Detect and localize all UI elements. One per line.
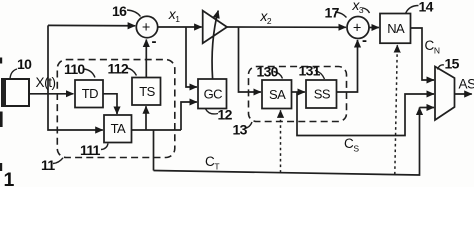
svg-text:110: 110 <box>64 61 85 77</box>
leader 15 <box>438 65 445 70</box>
svg-text:1: 1 <box>4 169 15 187</box>
block TA 111 <box>104 115 132 143</box>
scan edge artifacts <box>0 58 2 64</box>
svg-text:-: - <box>362 32 367 49</box>
svg-text:CS: CS <box>344 136 359 154</box>
block SA 130 <box>262 80 292 109</box>
wire CN from NA to selector <box>411 28 435 80</box>
svg-text:X(t): X(t) <box>36 75 56 90</box>
block NA 14 <box>380 14 411 44</box>
svg-text:SA: SA <box>269 87 286 102</box>
svg-text:17: 17 <box>325 5 340 21</box>
wire TD to TA <box>103 94 117 114</box>
svg-text:TA: TA <box>111 121 126 136</box>
leader 16 <box>127 10 141 17</box>
svg-text:AS: AS <box>459 77 474 92</box>
leader 13 <box>245 122 253 129</box>
dashed box 13 <box>249 67 347 122</box>
svg-text:130: 130 <box>257 64 279 80</box>
svg-text:CN: CN <box>425 38 440 56</box>
wire X(t) down branch to TA <box>48 94 103 130</box>
leader 14 <box>406 6 419 14</box>
wire X(t) from box 10 to TD <box>29 93 73 95</box>
svg-text:112: 112 <box>108 61 129 77</box>
svg-text:-: - <box>152 33 157 50</box>
summer 16 <box>136 16 157 37</box>
svg-text:+: + <box>142 20 150 36</box>
wire x2 to summer 17 <box>227 26 346 28</box>
amplifier (variable gain) <box>203 11 227 44</box>
svg-text:131: 131 <box>299 63 321 79</box>
wire TS to summer 16 minus input <box>145 40 147 78</box>
wire TA line down to CT <box>153 130 155 171</box>
wire CT to selector input <box>420 107 435 109</box>
wire CS tap down <box>297 92 434 136</box>
svg-text:x3: x3 <box>351 0 364 15</box>
leader 112 <box>127 68 137 76</box>
svg-text:GC: GC <box>204 86 223 101</box>
svg-text:NA: NA <box>387 21 405 36</box>
leader 110 <box>84 69 95 78</box>
svg-text:TS: TS <box>139 84 155 99</box>
svg-text:14: 14 <box>419 0 434 15</box>
block SS 131 <box>306 80 337 108</box>
node X(t) branch vertical <box>47 25 49 93</box>
block GC 12 <box>198 79 227 109</box>
leader 131 <box>315 71 325 80</box>
wire TA to TS <box>145 106 147 130</box>
leader x3 <box>363 8 370 13</box>
gain control arrow from GC through amplifier <box>212 11 218 79</box>
svg-text:111: 111 <box>80 142 101 158</box>
wire SA to SS <box>292 91 305 93</box>
wire x3 to NA <box>369 27 379 29</box>
svg-text:12: 12 <box>218 107 233 123</box>
leader 111 <box>101 144 108 150</box>
dashed box 11 <box>57 60 175 158</box>
wire CT dotted riser to NA <box>395 45 398 174</box>
node x2 branch down to SA <box>239 27 261 92</box>
leader 130 <box>274 72 283 79</box>
leader 17 <box>335 12 347 18</box>
leader 12 <box>206 109 219 114</box>
svg-text:16: 16 <box>112 3 127 19</box>
leader 11 <box>53 158 63 164</box>
svg-text:TD: TD <box>82 86 98 101</box>
wire TA output <box>132 129 182 131</box>
box 10 (input source) <box>2 79 29 106</box>
svg-text:13: 13 <box>233 122 248 138</box>
node x1 branch to GC upper input <box>186 27 197 87</box>
wire CT dotted riser to SA <box>280 110 282 172</box>
svg-text:11: 11 <box>41 157 55 173</box>
wire AS output <box>455 93 472 95</box>
svg-text:10: 10 <box>17 56 32 72</box>
svg-text:x1: x1 <box>168 6 181 24</box>
svg-text:15: 15 <box>445 56 460 72</box>
selector 15 (trapezoid) <box>435 67 455 121</box>
wire TA line to GC lower input <box>181 102 197 130</box>
wire CT bottom distribution <box>154 108 420 176</box>
svg-text:SS: SS <box>314 87 331 102</box>
wire x1 to amplifier <box>158 26 202 28</box>
block TS 112 <box>132 78 161 106</box>
svg-text:CT: CT <box>205 154 219 172</box>
wire SS to summer 17 minus input <box>337 40 358 92</box>
svg-text:+: + <box>353 20 361 36</box>
block TD 110 <box>75 80 103 108</box>
summer 17 <box>347 17 369 39</box>
svg-text:x2: x2 <box>259 8 272 26</box>
leader 10 <box>10 69 17 79</box>
wire feedforward to summer 16 <box>48 24 135 26</box>
